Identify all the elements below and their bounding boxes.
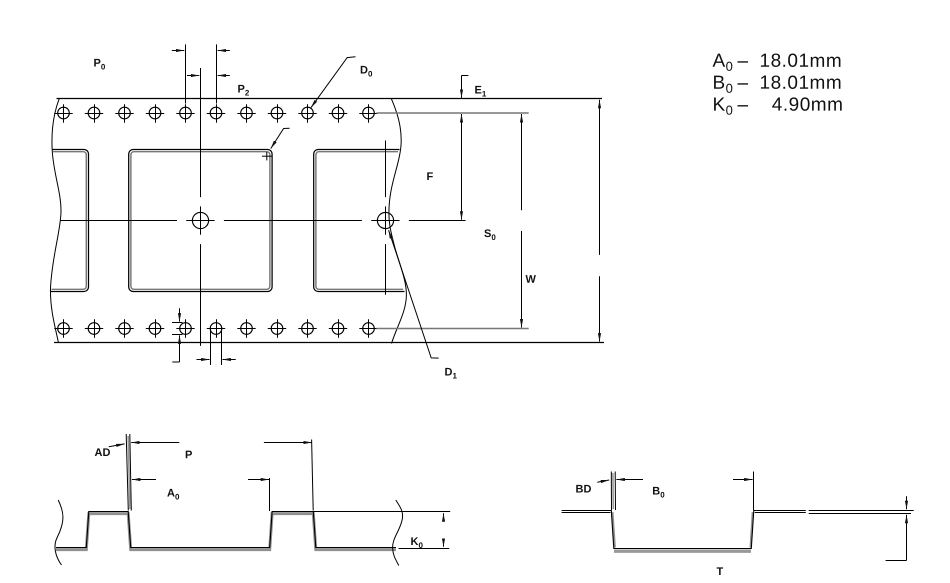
section B floor gray: [614, 550, 751, 553]
section A profile outer: [56, 512, 396, 548]
tape bottom edge: [54, 342, 604, 344]
polarity mark: [262, 152, 272, 160]
dimension K0: [313, 512, 450, 549]
pocket 1 partial outer: [51, 150, 89, 292]
svg-text:P: P: [185, 449, 192, 461]
corner radius leader: [271, 128, 290, 148]
dimension P: [131, 440, 313, 511]
dimension B0: [616, 479, 752, 481]
svg-text:–: –: [737, 51, 748, 72]
left break line: [50, 99, 61, 343]
top sprocket hole row: [54, 104, 377, 122]
dimension S0: [521, 114, 523, 328]
svg-text:B0: B0: [712, 73, 733, 96]
dimension A0: [132, 478, 270, 511]
svg-text:–: –: [737, 95, 748, 116]
dimension P0: [172, 44, 230, 103]
section B wall extension lines: [611, 472, 753, 511]
svg-text:AD: AD: [94, 447, 110, 459]
svg-text:S0: S0: [484, 228, 496, 242]
svg-text:18.01mm: 18.01mm: [759, 73, 842, 94]
pocket 2 wall extension lines: [126, 434, 131, 511]
svg-text:4.90mm: 4.90mm: [772, 95, 844, 116]
svg-text:K0: K0: [410, 536, 423, 550]
section A right break: [393, 500, 403, 566]
dimension W: [599, 100, 601, 342]
svg-text:A0: A0: [167, 488, 180, 502]
svg-text:W: W: [525, 274, 536, 286]
pocket 1 partial inner: [52, 152, 87, 290]
svg-text:P2: P2: [237, 84, 249, 98]
svg-text:D0: D0: [360, 65, 373, 79]
dimension BD: [597, 480, 609, 482]
bottom sprocket hole row: [54, 319, 377, 337]
dimension sprocket hole height: [172, 308, 183, 362]
dimension sprocket hole width: [197, 326, 236, 365]
svg-text:K0: K0: [712, 95, 733, 118]
dimension T: [886, 496, 907, 560]
svg-text:F: F: [426, 171, 433, 183]
pocket 2 outer: [129, 150, 272, 292]
svg-text:A0: A0: [712, 51, 733, 74]
svg-text:E1: E1: [474, 85, 486, 99]
pocket 2 vertical centerline: [200, 68, 202, 346]
dimension P2: [187, 75, 230, 77]
svg-text:P0: P0: [93, 58, 105, 72]
dimension E1: [462, 76, 469, 98]
pocket 3 partial outer: [314, 150, 405, 292]
section B profile outer: [562, 511, 806, 549]
horizontal centerline: [60, 220, 466, 222]
svg-text:T: T: [716, 566, 723, 578]
section B profile inner: [562, 512, 806, 548]
leader D0: [311, 57, 356, 108]
svg-text:18.01mm: 18.01mm: [759, 51, 842, 72]
svg-text:–: –: [737, 73, 748, 94]
right break line: [389, 99, 407, 344]
pocket 2 center hole: [186, 206, 214, 234]
leader D1: [389, 230, 439, 358]
section A left break: [55, 500, 63, 565]
tape top edge: [57, 98, 603, 100]
svg-text:D1: D1: [444, 367, 457, 381]
pocket 3 vertical centerline: [385, 141, 387, 295]
pocket 3 partial inner: [316, 152, 403, 290]
pocket 3 center hole: [371, 206, 399, 234]
sprocket row extension line top: [377, 112, 529, 114]
dimension AD: [109, 444, 125, 447]
notes text block: [712, 51, 843, 118]
section A profile gray inner: [56, 514, 396, 550]
pocket 2 inner: [131, 152, 270, 290]
tape thickness reference lines: [809, 511, 914, 514]
dimension F: [461, 114, 463, 220]
svg-text:BD: BD: [575, 484, 591, 496]
sprocket row extension line bottom: [377, 328, 529, 330]
svg-text:B0: B0: [652, 486, 665, 500]
